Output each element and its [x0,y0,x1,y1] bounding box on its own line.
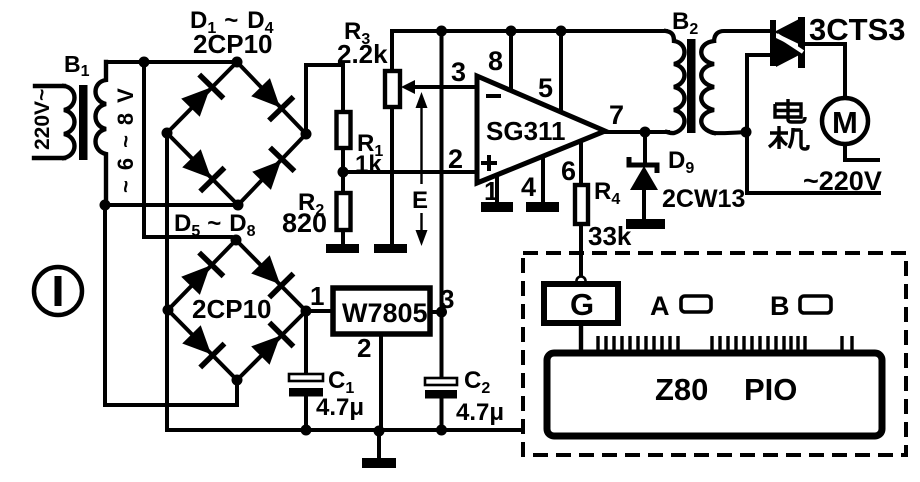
svg-text:8: 8 [488,46,503,76]
diode D5 top-left [178,251,225,298]
B2 core [687,39,696,133]
diode D6 top-right [248,252,295,299]
svg-text:1: 1 [484,176,498,206]
open terminal circle above G [577,277,586,286]
node bridge1 top [232,57,243,68]
wire pin2 from R1/R2 junction to op-amp [343,170,476,174]
diode D2 top-right [248,75,295,122]
motor M [803,98,882,196]
wire from node down to bridge2 top [144,62,236,240]
wire secondary bottom to bridge1 bottom [105,203,238,207]
top +V rail [392,29,666,33]
svg-text:820: 820 [282,208,327,238]
svg-text:B: B [770,291,790,321]
dashed control box [523,253,906,455]
node bridge2 left [163,305,174,316]
op-amp SG311 [477,76,605,183]
B1 primary winding [34,86,64,158]
R3 wiper arrow [412,85,476,89]
capacitor C1 [289,311,364,430]
wire bridge1 right corner to R1 [306,65,343,134]
bridge rectifier D1~D4 [162,7,312,211]
svg-text:33k: 33k [588,221,632,251]
svg-text:W7805: W7805 [342,298,428,328]
svg-text:2: 2 [448,144,463,174]
potentiometer R3 [337,18,476,244]
thyristor 3CTS3 [770,12,905,68]
gate drive box G [544,284,618,323]
node bridge2 top [231,235,242,246]
B2 secondary top lead [714,31,768,41]
Z80 pin ticks right pair [842,336,852,354]
node R1/R2 junction [338,167,349,178]
port A connector [681,296,711,312]
node bridge2 right [301,306,312,317]
svg-text:2CW13: 2CW13 [662,185,745,213]
svg-text:D5~D8: D5~D8 [174,210,256,240]
svg-text:2: 2 [357,333,371,363]
resistor R4 [575,178,632,277]
node secondary bottom [100,200,111,211]
wire G to Z80 [579,323,583,353]
+5V vertical from top rail to C2 [440,31,444,378]
svg-text:6: 6 [561,156,576,186]
node bridge1 left [162,128,173,139]
bottom ground rail [167,428,523,432]
resistor R2 [282,172,351,244]
svg-text:2CP10: 2CP10 [193,29,273,59]
node on top wire [139,57,150,68]
svg-text:M: M [832,105,858,140]
minus sign [486,94,501,98]
E measurement arrow [412,92,428,246]
svg-text:E: E [412,187,428,214]
B2 secondary bottom lead [714,132,746,133]
thyristor gate wire [747,55,879,193]
svg-text:~220V: ~220V [803,166,882,196]
node bridge2 bottom [232,375,243,386]
pin 1 wire and ground [495,176,499,202]
bridge1 diamond [167,62,306,205]
wire thyristor right to motor [804,44,845,98]
svg-text:7: 7 [609,100,624,130]
svg-text:3: 3 [451,57,466,87]
node gate / B2 secondary bottom [741,127,752,138]
svg-text:3CTS3: 3CTS3 [809,12,905,47]
ground bar R3 [374,244,407,253]
diode D3 bottom-left [179,146,226,193]
svg-text:Z80: Z80 [655,372,708,407]
pin 8 wire [509,31,513,90]
svg-text:220V~: 220V~ [31,89,54,150]
B2 secondary winding [701,41,714,133]
main ground symbol [377,431,381,458]
svg-text:4.7μ: 4.7μ [316,394,364,421]
B1 secondary winding [96,62,107,205]
pin 7 wire [605,130,668,134]
svg-text:2CP10: 2CP10 [192,294,272,324]
svg-text:5: 5 [538,73,553,103]
transformer B1 [31,51,138,205]
Z80 PIO box [547,353,882,436]
node bridge1 right [301,129,312,140]
wire secondary bottom down and right to bridge2 bottom [105,205,237,405]
pin 5 wire [559,31,563,112]
Z80 pin ticks group A [598,336,678,354]
transformer B2 [666,8,768,133]
wire bridge2 right to W7805 pin1 [306,309,333,313]
zener diode D9 [626,132,745,229]
svg-text:SG311: SG311 [486,116,566,146]
wire bridge1 left corner down to bottom rail [165,133,169,430]
diode D8 bottom-right [248,321,295,368]
Z80 pin ticks group B [712,336,805,354]
diode D4 bottom-right [249,146,296,193]
svg-text:4: 4 [521,172,536,202]
plus sign [481,155,497,171]
B1 core [79,85,88,160]
capacitor C2 [425,367,504,430]
diode D1 top-left [178,73,225,120]
regulator W7805 [333,284,454,431]
ground bar R2 [326,244,359,253]
bridge rectifier D5~D8 [163,210,312,386]
svg-text:A: A [650,291,670,321]
svg-text:1: 1 [310,281,324,311]
pin 4 wire and ground [541,158,545,202]
diode D7 bottom-left [179,322,226,369]
svg-text:~6~8V: ~6~8V [113,78,138,193]
svg-text:2.2k: 2.2k [337,39,388,69]
circled phase symbol [34,267,82,315]
label motor chinese 电机 [769,99,808,149]
pin 6 wire [579,142,583,185]
svg-text:PIO: PIO [744,372,797,407]
svg-text:4.7μ: 4.7μ [456,399,504,426]
resistor R1 [337,112,384,178]
B2 primary winding [666,31,685,133]
wire secondary top to bridge1 top [106,60,237,64]
node pin7/D9 [640,127,651,138]
svg-text:G: G [570,287,594,322]
port B connector [800,296,831,313]
node bridge1 bottom [233,200,244,211]
